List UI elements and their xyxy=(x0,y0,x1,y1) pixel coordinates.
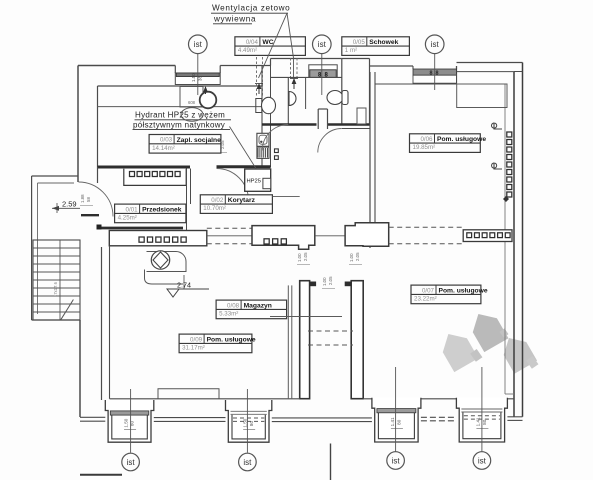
wall przedsionek/korytarz divider xyxy=(98,167,191,230)
svg-text:608: 608 xyxy=(188,100,196,105)
text wentylacja xyxy=(211,4,290,24)
leader pier4 xyxy=(481,367,483,452)
svg-text:Przedsionek: Przedsionek xyxy=(142,206,182,213)
svg-text:Pom. usługowe: Pom. usługowe xyxy=(439,287,488,294)
svg-text:8: 8 xyxy=(430,71,433,77)
radiator zapl socjalne xyxy=(124,169,186,186)
radiator column right wall xyxy=(503,132,512,202)
magazyn wall W2 xyxy=(345,281,364,399)
urinal xyxy=(327,91,348,105)
platform step xyxy=(158,389,219,399)
vent squares east of wall xyxy=(275,149,279,160)
svg-text:1.00: 1.00 xyxy=(297,253,302,262)
wall piece right of corridor xyxy=(345,223,389,247)
radiator row 0/06 south xyxy=(463,230,512,242)
window bay B xyxy=(309,65,337,79)
wall A dark (south of zapl socjalne) xyxy=(98,166,191,169)
bottom center vertical line xyxy=(330,444,332,480)
pier window 3 xyxy=(372,398,421,442)
vent arrow below bay A xyxy=(203,86,208,94)
magazyn south line xyxy=(270,316,342,318)
room label Magazyn xyxy=(216,300,287,319)
outer wall west upper xyxy=(77,66,79,183)
bottom stray line xyxy=(80,474,122,476)
svg-text:0/08: 0/08 xyxy=(227,302,240,309)
svg-text:ist: ist xyxy=(431,40,440,49)
svg-text:ist: ist xyxy=(392,456,401,465)
svg-text:wywiewna: wywiewna xyxy=(213,15,256,24)
svg-text:0/06: 0/06 xyxy=(420,136,433,143)
entrance door arc xyxy=(79,182,114,217)
svg-text:80: 80 xyxy=(482,419,487,425)
dim 2.59 xyxy=(52,200,80,214)
room 0/09 west wall xyxy=(102,246,110,400)
leader ist3 xyxy=(434,54,436,90)
svg-text:0/04: 0/04 xyxy=(246,39,259,46)
svg-text:ist: ist xyxy=(243,458,252,467)
vent arrows xyxy=(255,78,298,94)
wall B box 2 xyxy=(252,226,315,250)
column circle feature xyxy=(147,251,187,272)
watermark grey houses xyxy=(436,307,538,374)
pier window 1 xyxy=(105,400,154,442)
ist circle top 2 xyxy=(313,35,332,54)
svg-text:Pom. usługowe: Pom. usługowe xyxy=(207,336,256,343)
wc room walls xyxy=(271,59,370,125)
shaft fixture xyxy=(257,133,269,146)
room label Pom. uslugowe 0/07 xyxy=(411,285,488,304)
east wall inner finish line xyxy=(504,84,506,395)
svg-text:Wentylacja zetowo: Wentylacja zetowo xyxy=(212,4,290,13)
room label Schowek xyxy=(342,37,410,56)
bottom wall inner xyxy=(110,394,515,399)
svg-text:1.41: 1.41 xyxy=(476,417,481,426)
sink counter top-left room xyxy=(180,87,216,109)
room 0/06 walls xyxy=(370,72,507,248)
corridor lines to east xyxy=(207,228,252,244)
svg-text:ist: ist xyxy=(127,458,136,467)
svg-text:4.25m²: 4.25m² xyxy=(118,215,137,222)
room label Pom. uslugowe 0/09 xyxy=(179,334,256,353)
svg-text:Schowek: Schowek xyxy=(369,39,398,46)
room label Zapl. socjalne xyxy=(149,135,221,154)
svg-text:Magazyn: Magazyn xyxy=(244,302,272,309)
svg-text:1 m²: 1 m² xyxy=(345,47,357,54)
room label Korytarz xyxy=(200,195,272,214)
stairs xyxy=(33,240,80,320)
svg-text:HP25: HP25 xyxy=(247,179,262,185)
thin wall west of magazyn xyxy=(288,285,292,398)
dim 2.74 xyxy=(167,275,209,297)
svg-text:0/09: 0/09 xyxy=(190,336,203,343)
right section top outer xyxy=(369,59,371,67)
corridor dashed right xyxy=(389,226,464,228)
window bay A top-left wall xyxy=(175,66,220,85)
svg-text:80: 80 xyxy=(397,419,402,425)
hook symbols xyxy=(491,123,502,169)
svg-text:WC: WC xyxy=(262,39,273,46)
wc door arcs xyxy=(262,125,342,153)
leader pier1 xyxy=(130,389,132,453)
wentylacja leader lines xyxy=(259,13,294,78)
svg-text:Hydrant HP25 z wężem: Hydrant HP25 z wężem xyxy=(135,111,225,120)
pier window 2 xyxy=(226,400,272,442)
svg-text:Korytarz: Korytarz xyxy=(228,197,256,204)
outer wall left section top xyxy=(78,65,175,67)
svg-text:ist: ist xyxy=(194,40,203,49)
leader ist2 xyxy=(321,54,323,95)
svg-text:ist: ist xyxy=(318,40,327,49)
bottom wall outer segments xyxy=(80,417,523,422)
svg-text:0/01: 0/01 xyxy=(126,206,139,213)
ist circle bottom 3 xyxy=(387,452,405,470)
svg-text:0/03: 0/03 xyxy=(160,137,173,144)
wall B box with radiator xyxy=(109,231,207,246)
svg-text:31.17m²: 31.17m² xyxy=(182,345,205,352)
wall step WC bay xyxy=(270,59,272,66)
svg-text:1.50: 1.50 xyxy=(123,418,128,427)
svg-text:półsztywnym natynkowy: półsztywnym natynkowy xyxy=(133,121,225,130)
toilet xyxy=(256,97,276,113)
wc bottom walls xyxy=(262,108,370,129)
svg-text:58: 58 xyxy=(86,197,91,202)
svg-text:0/05: 0/05 xyxy=(353,39,366,46)
svg-text:14.14m²: 14.14m² xyxy=(152,145,175,152)
room zapl socjalne walls xyxy=(98,59,271,168)
room label WC xyxy=(235,37,306,56)
ist circle bottom 1 xyxy=(122,453,140,471)
ist circle bottom 4 xyxy=(473,452,491,470)
svg-text:1.50: 1.50 xyxy=(191,73,196,82)
porch outline xyxy=(32,176,80,320)
svg-text:2.05: 2.05 xyxy=(303,252,308,261)
svg-text:23.22m²: 23.22m² xyxy=(414,296,437,303)
svg-text:2.59: 2.59 xyxy=(62,200,77,209)
svg-text:80: 80 xyxy=(249,421,254,427)
svg-text:1.88: 1.88 xyxy=(80,194,85,203)
ist circle bottom 2 xyxy=(239,453,257,471)
svg-text:1.00: 1.00 xyxy=(349,253,354,262)
ist circle top 1 xyxy=(189,35,208,54)
leader pier2 xyxy=(246,389,248,453)
svg-text:1.00: 1.00 xyxy=(322,277,327,286)
hinge dot xyxy=(97,225,102,230)
schowek top wall xyxy=(342,58,370,60)
magazyn wall W1 xyxy=(300,281,316,399)
leader ist1 xyxy=(197,54,199,95)
text hydrant xyxy=(133,108,257,169)
svg-text:1.41: 1.41 xyxy=(390,417,395,426)
svg-text:10.70m²: 10.70m² xyxy=(203,205,226,212)
corridor line segment xyxy=(315,235,345,237)
pipe bend feature xyxy=(145,270,184,285)
magazyn dashed xyxy=(308,331,353,345)
outer wall east xyxy=(522,63,524,417)
wall B west segment xyxy=(98,227,184,230)
svg-text:4.49m²: 4.49m² xyxy=(238,47,257,54)
svg-text:1.50: 1.50 xyxy=(242,418,247,427)
leader pier3 xyxy=(395,367,397,452)
svg-text:19.85m²: 19.85m² xyxy=(413,144,436,151)
HP25 hydrant cabinet xyxy=(245,169,271,191)
hatched radiator shaft xyxy=(257,147,269,158)
window bay C xyxy=(413,66,457,83)
sink wc xyxy=(289,92,296,106)
wc stub wall xyxy=(318,109,327,129)
svg-text:2.05: 2.05 xyxy=(355,252,360,261)
pier window 4 xyxy=(456,398,507,442)
svg-text:17x17.6: 17x17.6 xyxy=(53,281,58,297)
svg-text:0/02: 0/02 xyxy=(211,197,224,204)
svg-text:ist: ist xyxy=(478,456,487,465)
svg-text:Zapl. socjalne: Zapl. socjalne xyxy=(177,137,222,144)
svg-text:0/07: 0/07 xyxy=(422,287,435,294)
ist circle top 3 xyxy=(425,35,444,54)
svg-text:2.05: 2.05 xyxy=(328,276,333,285)
svg-text:5.33m²: 5.33m² xyxy=(219,311,238,318)
outer wall west lower xyxy=(79,320,81,417)
room label Pom. uslugowe 0/06 xyxy=(410,134,487,153)
korytarz leader xyxy=(272,195,299,197)
room label Przedsionek xyxy=(115,204,186,223)
door arc A wall xyxy=(217,169,249,201)
svg-text:Pom. usługowe: Pom. usługowe xyxy=(437,136,486,143)
svg-text:8: 8 xyxy=(436,71,439,77)
vent ducts dashed xyxy=(257,54,298,97)
